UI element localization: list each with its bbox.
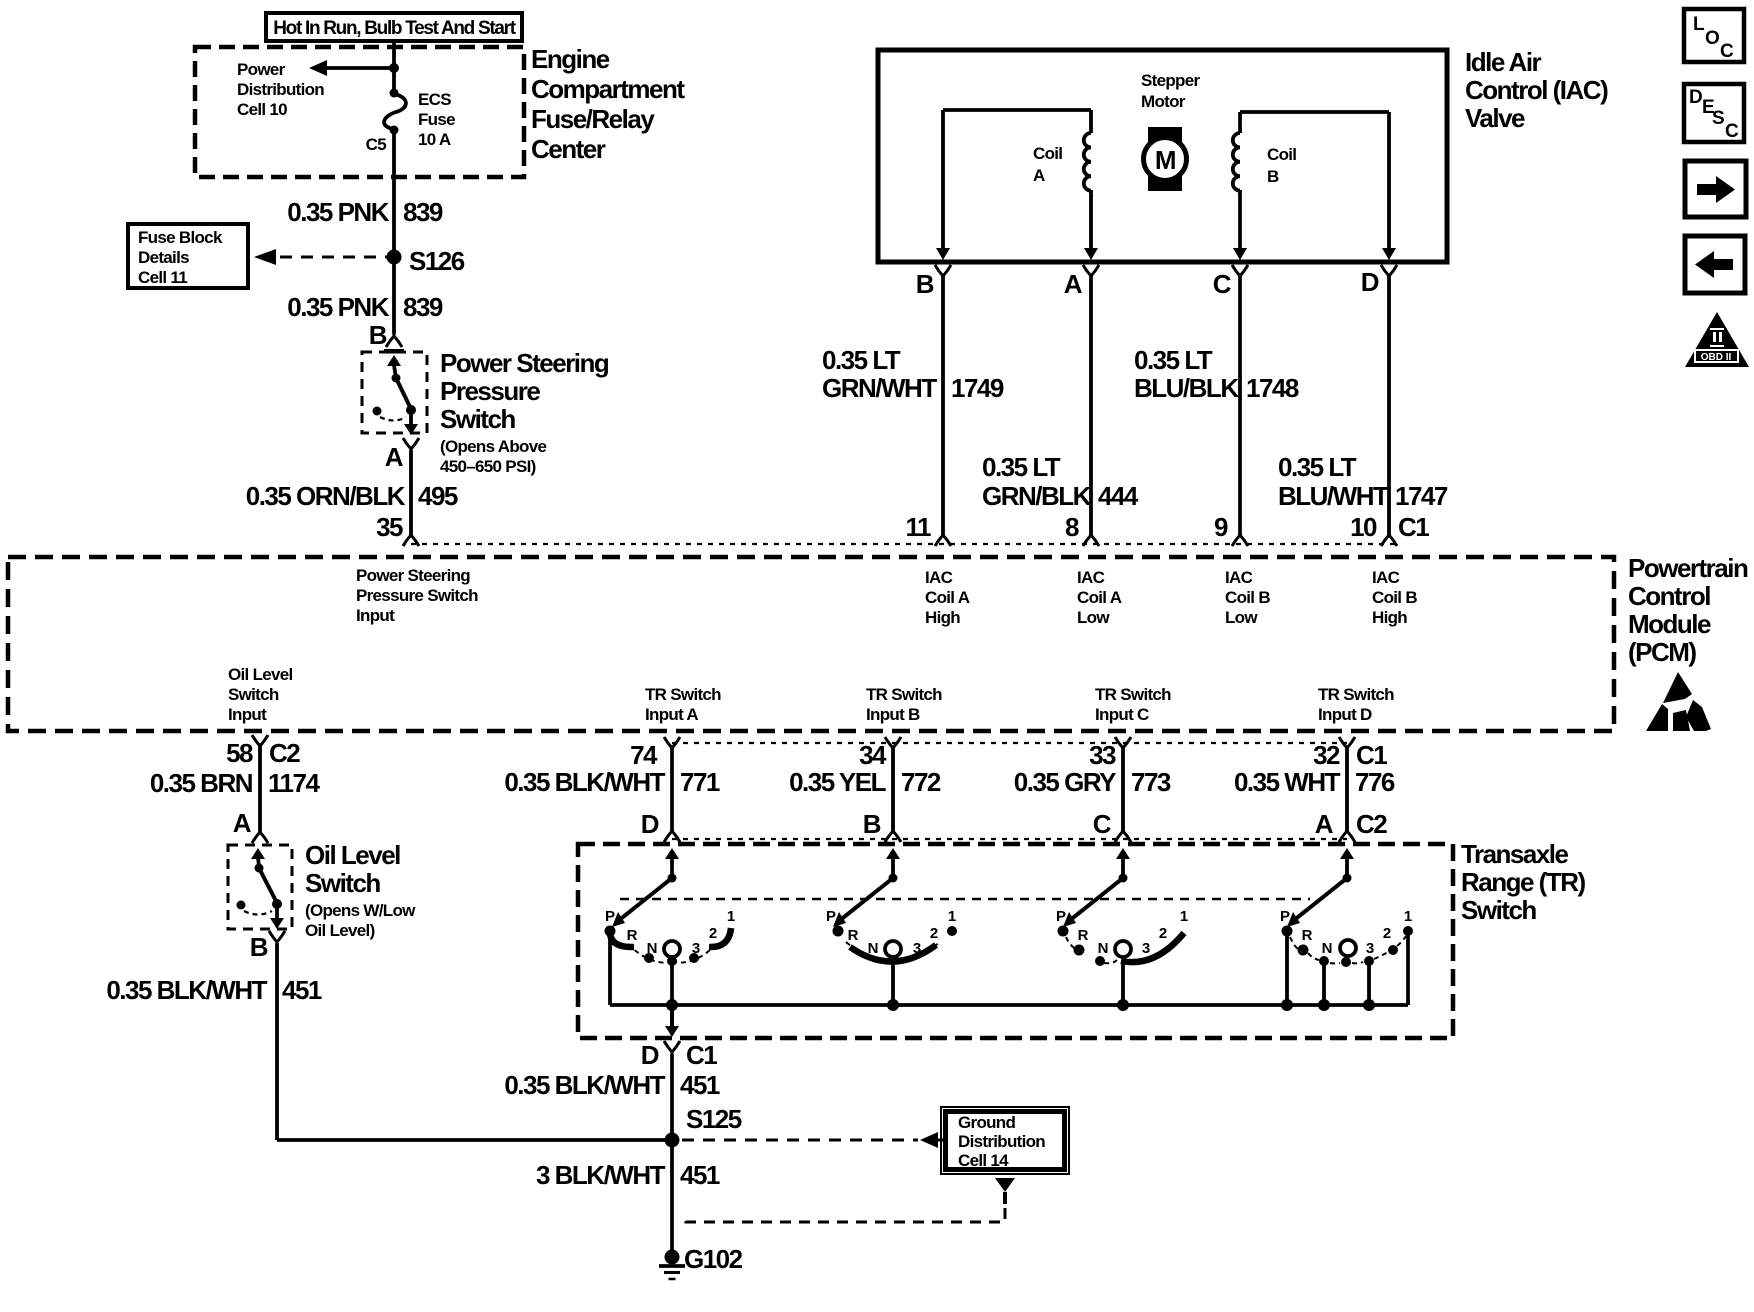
svg-text:OBD II: OBD II — [1701, 352, 1732, 363]
svg-text:74: 74 — [630, 740, 658, 770]
label Stepper Motor — [1141, 71, 1200, 111]
svg-text:TR Switch: TR Switch — [645, 685, 721, 704]
svg-text:772: 772 — [901, 767, 941, 797]
svg-text:0.35 ORN/BLK: 0.35 ORN/BLK — [246, 481, 406, 511]
svg-text:P: P — [1056, 908, 1066, 925]
svg-text:451: 451 — [282, 975, 322, 1005]
TR bottom connector D C1 — [641, 1040, 718, 1070]
label Idle Air Control (IAC) Valve — [1465, 47, 1608, 133]
TR switch rotor A (input D) — [605, 848, 736, 1026]
power steering pressure switch — [362, 349, 427, 435]
TR mechanical link dashed line — [620, 898, 1310, 901]
svg-text:Power Steering: Power Steering — [440, 348, 609, 378]
svg-text:Details: Details — [138, 248, 189, 267]
svg-text:1: 1 — [1180, 908, 1188, 925]
svg-text:776: 776 — [1355, 767, 1395, 797]
sidebar icon DESC — [1684, 84, 1744, 142]
svg-text:P: P — [826, 908, 836, 925]
svg-text:A: A — [1033, 166, 1045, 185]
svg-text:C: C — [1725, 121, 1739, 142]
svg-text:GRN/WHT: GRN/WHT — [822, 373, 937, 403]
wire label 0.35 LT BLU/BLK 1748 — [1134, 345, 1299, 403]
TR terminal letters — [233, 808, 1388, 839]
svg-text:Oil Level: Oil Level — [228, 665, 293, 684]
svg-text:N: N — [647, 940, 658, 957]
svg-text:0.35 BLK/WHT: 0.35 BLK/WHT — [504, 1070, 665, 1100]
svg-text:Control: Control — [1628, 581, 1710, 611]
svg-text:495: 495 — [418, 481, 458, 511]
svg-text:B: B — [1267, 167, 1279, 186]
TR bus wire — [610, 999, 1408, 1011]
connector fork pin 35 — [403, 530, 419, 546]
svg-text:9: 9 — [1214, 512, 1228, 542]
wire label 0.35 LT BLU/WHT 1747 — [1278, 452, 1448, 511]
connector C1 dashed line top — [411, 543, 1400, 545]
TR top forks — [252, 826, 1355, 843]
arrow to power distribution — [309, 60, 399, 76]
svg-text:S126: S126 — [409, 246, 465, 276]
svg-text:0.35 BRN: 0.35 BRN — [150, 768, 253, 798]
sidebar icon LOC — [1684, 9, 1744, 62]
svg-text:Fuse Block: Fuse Block — [138, 228, 223, 247]
svg-text:D: D — [641, 809, 659, 839]
PCM top pin forks — [935, 530, 1397, 546]
svg-text:2: 2 — [1159, 925, 1167, 942]
svg-text:Input D: Input D — [1318, 705, 1372, 724]
PCM internal labels bottom row — [228, 665, 1394, 724]
svg-text:BLU/BLK: BLU/BLK — [1134, 373, 1239, 403]
svg-text:839: 839 — [403, 197, 443, 227]
terminal A of power steering switch — [385, 438, 419, 472]
svg-text:32: 32 — [1313, 740, 1340, 770]
svg-text:0.35 LT: 0.35 LT — [822, 345, 901, 375]
svg-text:L: L — [1693, 14, 1705, 35]
svg-text:P: P — [605, 908, 615, 925]
svg-text:G102: G102 — [684, 1244, 743, 1274]
svg-text:M: M — [1155, 145, 1175, 175]
label Powertrain Control Module (PCM) — [1628, 553, 1748, 667]
TR output wire with arrow — [665, 1005, 679, 1037]
svg-text:R: R — [1078, 927, 1089, 944]
svg-text:ECS: ECS — [418, 90, 451, 109]
svg-text:IAC: IAC — [925, 568, 953, 587]
svg-text:A: A — [385, 442, 404, 472]
coil B — [1233, 112, 1396, 260]
svg-text:Idle Air: Idle Air — [1465, 47, 1542, 77]
wire label 0.35 PNK 839 — [287, 197, 443, 227]
wire label 0.35 BLK/WHT 451 — [106, 975, 322, 1005]
svg-text:Switch: Switch — [305, 868, 380, 898]
svg-text:35: 35 — [376, 512, 403, 542]
svg-text:1: 1 — [948, 908, 956, 925]
svg-text:Compartment: Compartment — [531, 74, 685, 104]
svg-text:2: 2 — [709, 925, 717, 942]
svg-text:Pressure Switch: Pressure Switch — [356, 586, 478, 605]
ground G102 — [659, 1244, 743, 1279]
splice S125 — [665, 1104, 742, 1148]
TR switch rotor C (input C) — [1056, 848, 1188, 1005]
svg-text:Power Steering: Power Steering — [356, 566, 470, 585]
IAC wires to PCM — [943, 276, 1389, 535]
svg-text:(Opens Above: (Opens Above — [440, 437, 546, 456]
svg-text:(Opens W/Low: (Opens W/Low — [305, 901, 416, 920]
connector C2 dashed line above TR — [672, 838, 1347, 840]
svg-text:773: 773 — [1131, 767, 1171, 797]
svg-text:1174: 1174 — [268, 768, 320, 798]
svg-text:Switch: Switch — [1461, 895, 1536, 925]
PCM bottom pin numbers — [226, 738, 1387, 770]
svg-text:TR Switch: TR Switch — [1095, 685, 1171, 704]
svg-text:C1: C1 — [686, 1040, 717, 1070]
svg-text:Low: Low — [1225, 608, 1258, 627]
svg-text:Range (TR): Range (TR) — [1461, 867, 1586, 897]
ground distribution box — [941, 1107, 1069, 1174]
svg-text:Input B: Input B — [866, 705, 920, 724]
svg-text:2: 2 — [1383, 925, 1391, 942]
svg-text:0.35 WHT: 0.35 WHT — [1234, 767, 1341, 797]
label Power Distribution Cell 10 — [237, 60, 324, 119]
svg-text:Distribution: Distribution — [237, 80, 324, 99]
ESD symbol — [1646, 672, 1711, 731]
svg-text:Valve: Valve — [1465, 103, 1525, 133]
svg-text:Input A: Input A — [645, 705, 698, 724]
power feed box Hot In Run — [266, 13, 522, 41]
svg-text:Oil Level): Oil Level) — [305, 921, 375, 940]
IAC terminal letters — [916, 267, 1379, 299]
svg-text:A: A — [233, 808, 252, 838]
svg-text:1748: 1748 — [1246, 373, 1299, 403]
svg-text:1749: 1749 — [951, 373, 1004, 403]
svg-text:D: D — [1361, 267, 1379, 297]
svg-text:1: 1 — [1404, 908, 1412, 925]
svg-text:TR Switch: TR Switch — [866, 685, 942, 704]
svg-text:C2: C2 — [269, 738, 300, 768]
svg-text:Coil B: Coil B — [1372, 588, 1417, 607]
wire label 3 BLK/WHT 451 — [536, 1160, 720, 1190]
connector C1 dashed line bottom pins — [672, 742, 1347, 744]
svg-text:High: High — [1372, 608, 1407, 627]
svg-text:1747: 1747 — [1395, 481, 1448, 511]
svg-text:(PCM): (PCM) — [1628, 637, 1696, 667]
svg-text:Ground: Ground — [958, 1113, 1015, 1132]
label Transaxle Range TR Switch — [1461, 839, 1586, 925]
svg-text:N: N — [1322, 940, 1333, 957]
wire label 0.35 BLK/WHT 451 bottom — [504, 1070, 720, 1100]
dashed wire S125 to ground distribution — [682, 1132, 943, 1148]
svg-text:Transaxle: Transaxle — [1461, 839, 1569, 869]
sidebar icon arrow left — [1685, 236, 1745, 293]
sidebar icon OBD II — [1685, 312, 1749, 367]
wire label 0.35 LT GRN/WHT 1749 — [822, 345, 1004, 403]
svg-text:C5: C5 — [366, 135, 387, 154]
svg-text:0.35 LT: 0.35 LT — [982, 452, 1061, 482]
PCM top pin numbers — [906, 512, 1430, 542]
svg-text:N: N — [868, 940, 879, 957]
svg-text:3 BLK/WHT: 3 BLK/WHT — [536, 1160, 666, 1190]
dashed arrow to fuse block — [254, 249, 388, 265]
wire label 0.35 LT GRN/BLK 444 — [982, 452, 1139, 511]
svg-text:O: O — [1705, 28, 1719, 49]
wire A to PCM — [409, 450, 413, 535]
svg-text:B: B — [369, 320, 387, 350]
svg-text:TR Switch: TR Switch — [1318, 685, 1394, 704]
wires PCM to TR switch — [260, 746, 1347, 832]
svg-text:C1: C1 — [1356, 740, 1387, 770]
svg-text:R: R — [848, 927, 859, 944]
svg-text:C: C — [1213, 269, 1232, 299]
label Oil Level Switch — [305, 840, 416, 940]
svg-text:0.35 BLK/WHT: 0.35 BLK/WHT — [106, 975, 267, 1005]
svg-text:58: 58 — [226, 738, 253, 768]
wire main feed — [392, 41, 396, 93]
svg-text:771: 771 — [680, 767, 720, 797]
stepper motor M — [1144, 127, 1187, 191]
svg-text:Motor: Motor — [1141, 92, 1186, 111]
svg-text:Coil A: Coil A — [925, 588, 970, 607]
svg-text:1: 1 — [727, 908, 735, 925]
PCM internal labels top row — [356, 566, 1417, 627]
svg-text:B: B — [863, 809, 881, 839]
svg-text:Cell 11: Cell 11 — [138, 268, 187, 287]
svg-text:3: 3 — [692, 940, 700, 957]
svg-text:B: B — [250, 932, 268, 962]
wire label 0.35 ORN/BLK 495 — [246, 481, 458, 511]
svg-text:IAC: IAC — [1225, 568, 1253, 587]
svg-text:450–650 PSI): 450–650 PSI) — [440, 457, 536, 476]
svg-text:GRN/BLK: GRN/BLK — [982, 481, 1092, 511]
svg-text:IAC: IAC — [1372, 568, 1400, 587]
dashed wire ground distribution to G102 — [686, 1208, 1005, 1222]
svg-text:451: 451 — [680, 1070, 720, 1100]
svg-text:34: 34 — [859, 740, 887, 770]
svg-text:Coil B: Coil B — [1225, 588, 1270, 607]
wire oil switch to S125 — [277, 1138, 672, 1142]
svg-text:Switch: Switch — [228, 685, 279, 704]
svg-text:High: High — [925, 608, 960, 627]
svg-text:0.35 LT: 0.35 LT — [1278, 452, 1357, 482]
svg-text:2: 2 — [930, 925, 938, 942]
svg-text:10 A: 10 A — [418, 130, 451, 149]
svg-text:Pressure: Pressure — [440, 376, 540, 406]
TR switch rotor B (input B) — [826, 848, 957, 1005]
svg-text:D: D — [1689, 87, 1702, 108]
svg-text:Power: Power — [237, 60, 286, 79]
svg-text:Input: Input — [356, 606, 395, 625]
sidebar icon arrow right — [1685, 161, 1746, 217]
label Engine Compartment Fuse/Relay Center — [531, 44, 685, 164]
connector below ground distribution — [995, 1178, 1015, 1204]
svg-text:C: C — [1093, 809, 1112, 839]
svg-text:Fuse/Relay: Fuse/Relay — [531, 104, 655, 134]
svg-text:C2: C2 — [1356, 809, 1387, 839]
svg-text:Engine: Engine — [531, 44, 610, 74]
svg-text:3: 3 — [1142, 940, 1150, 957]
svg-text:Coil: Coil — [1033, 144, 1062, 163]
svg-text:Coil: Coil — [1267, 145, 1296, 164]
coil A — [936, 110, 1098, 260]
svg-text:0.35 PNK: 0.35 PNK — [287, 292, 389, 322]
svg-text:Cell 14: Cell 14 — [958, 1151, 1009, 1170]
svg-text:Coil A: Coil A — [1077, 588, 1122, 607]
svg-text:Center: Center — [531, 134, 606, 164]
svg-text:Input: Input — [228, 705, 267, 724]
IAC terminal forks — [935, 265, 1397, 281]
svg-text:Module: Module — [1628, 609, 1711, 639]
engine compartment fuse/relay center dashed box — [195, 47, 524, 177]
wire TR to ground — [670, 1054, 674, 1252]
svg-text:Cell 10: Cell 10 — [237, 100, 287, 119]
svg-text:S125: S125 — [686, 1104, 742, 1134]
svg-text:Fuse: Fuse — [418, 110, 455, 129]
svg-text:839: 839 — [403, 292, 443, 322]
svg-text:IAC: IAC — [1077, 568, 1105, 587]
svg-text:BLU/WHT: BLU/WHT — [1278, 481, 1389, 511]
svg-text:Input C: Input C — [1095, 705, 1149, 724]
svg-text:444: 444 — [1098, 481, 1139, 511]
svg-text:3: 3 — [1366, 940, 1374, 957]
svg-text:8: 8 — [1065, 512, 1079, 542]
terminal B of power steering switch — [369, 320, 402, 350]
svg-text:C1: C1 — [1398, 512, 1429, 542]
Idle Air Control valve box — [878, 50, 1447, 262]
svg-text:3: 3 — [913, 940, 921, 957]
svg-text:P: P — [1280, 908, 1290, 925]
svg-text:33: 33 — [1089, 740, 1116, 770]
svg-text:0.35 PNK: 0.35 PNK — [287, 197, 389, 227]
svg-text:A: A — [1315, 809, 1334, 839]
wire label 0.35 PNK 839 lower — [287, 292, 443, 322]
svg-text:10: 10 — [1350, 512, 1377, 542]
svg-text:0.35 BLK/WHT: 0.35 BLK/WHT — [504, 767, 665, 797]
PCM dashed box — [8, 557, 1614, 731]
PCM bottom pin forks — [252, 735, 1355, 753]
svg-text:0.35 GRY: 0.35 GRY — [1014, 767, 1116, 797]
fuse block details box — [128, 224, 248, 288]
svg-text:11: 11 — [906, 512, 932, 542]
svg-text:Stepper: Stepper — [1141, 71, 1200, 90]
svg-text:R: R — [1302, 927, 1313, 944]
svg-text:D: D — [641, 1040, 659, 1070]
svg-text:0.35 YEL: 0.35 YEL — [789, 767, 887, 797]
svg-text:0.35 LT: 0.35 LT — [1134, 345, 1213, 375]
svg-text:A: A — [1064, 269, 1083, 299]
fuse ECS 10A — [384, 89, 406, 135]
svg-text:451: 451 — [680, 1160, 720, 1190]
svg-text:Control (IAC): Control (IAC) — [1465, 75, 1608, 105]
svg-text:S: S — [1712, 108, 1724, 129]
oil level switch — [228, 845, 292, 929]
TR switch rotor D (input A) — [1280, 848, 1413, 1005]
TR switch dashed box — [578, 844, 1453, 1038]
svg-text:Oil Level: Oil Level — [305, 840, 400, 870]
wire fuse to switch — [392, 130, 396, 334]
svg-text:Powertrain: Powertrain — [1628, 553, 1748, 583]
wire labels below PCM — [150, 767, 1395, 798]
svg-text:B: B — [916, 269, 934, 299]
svg-text:R: R — [627, 927, 638, 944]
svg-text:Low: Low — [1077, 608, 1110, 627]
svg-text:Hot In Run, Bulb Test And Star: Hot In Run, Bulb Test And Start — [273, 18, 516, 39]
svg-text:Distribution: Distribution — [958, 1132, 1045, 1151]
terminal B of oil level switch — [250, 931, 285, 962]
svg-text:C: C — [1720, 41, 1734, 62]
svg-text:Switch: Switch — [440, 404, 515, 434]
label Power Steering Pressure Switch — [440, 348, 609, 476]
svg-text:N: N — [1098, 940, 1109, 957]
splice S126 — [387, 246, 465, 276]
wire oil switch down — [275, 943, 279, 1140]
